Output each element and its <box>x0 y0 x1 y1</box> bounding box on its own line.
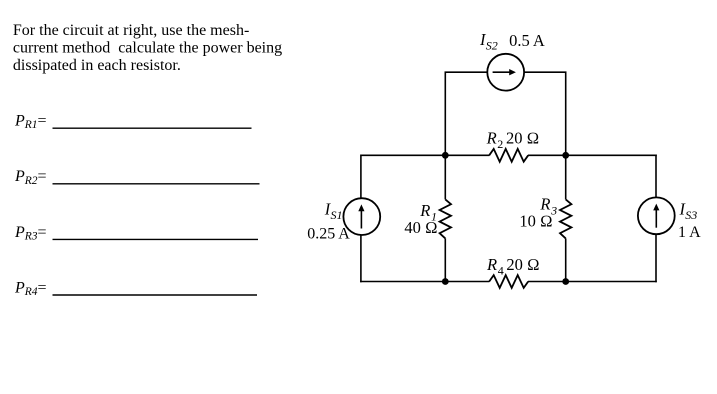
wire top branch left vertical <box>444 72 446 155</box>
wire bottom rail right <box>528 281 657 283</box>
label R1 <box>419 201 437 224</box>
svg-text:40 Ω: 40 Ω <box>404 218 437 237</box>
wire right outer lower <box>655 235 657 283</box>
label R3 <box>539 195 557 218</box>
wire top branch right vertical <box>565 72 567 155</box>
wire right outer upper <box>655 155 657 198</box>
answer label PR2 <box>14 168 47 187</box>
wire bottom rail left <box>360 281 489 283</box>
wire middle rail right <box>528 154 657 156</box>
svg-text:=: = <box>38 224 47 241</box>
current source IS3 <box>638 197 675 234</box>
svg-text:0.5 A: 0.5 A <box>509 31 545 50</box>
svg-text:PR1: PR1 <box>14 113 38 132</box>
answer label PR3 <box>14 224 47 243</box>
svg-text:PR2: PR2 <box>14 168 38 187</box>
problem statement text <box>13 22 282 74</box>
wire R1 branch lower <box>444 238 446 282</box>
answer blank line 3 <box>53 238 259 240</box>
label R2 20 ohm <box>486 128 540 151</box>
wire top branch horizontal right <box>524 71 566 73</box>
svg-text:current method calculate the: current method calculate the power being <box>13 39 282 56</box>
wire middle rail left <box>361 154 490 156</box>
svg-text:10 Ω: 10 Ω <box>519 212 552 231</box>
node C (bottom-left junction) <box>442 278 449 285</box>
svg-text:20 Ω: 20 Ω <box>506 255 539 274</box>
wire top branch horizontal left <box>445 71 488 73</box>
svg-text:2: 2 <box>497 137 503 151</box>
label IS1 <box>324 199 343 222</box>
answer blank line 2 <box>53 183 260 185</box>
answer label PR4 <box>14 279 47 298</box>
svg-text:PR3: PR3 <box>14 224 38 243</box>
svg-text:S3: S3 <box>685 208 697 222</box>
label R4 20 ohm <box>486 255 540 278</box>
svg-text:20 Ω: 20 Ω <box>506 128 539 147</box>
label IS3 <box>679 199 698 222</box>
answer blank line 1 <box>53 127 252 129</box>
resistor R4 <box>489 275 528 288</box>
svg-text:=: = <box>38 279 47 296</box>
svg-text:1 A: 1 A <box>678 224 701 241</box>
resistor R3 <box>560 199 571 238</box>
svg-text:=: = <box>38 168 47 185</box>
svg-text:0.25 A: 0.25 A <box>307 226 350 243</box>
svg-text:R: R <box>486 255 497 274</box>
answer blank line 4 <box>53 294 258 296</box>
node B (top-right junction) <box>562 152 569 159</box>
svg-text:For the circuit at right, use: For the circuit at right, use the mesh- <box>13 22 249 39</box>
svg-text:=: = <box>38 113 47 130</box>
wire R3 branch upper <box>565 155 567 199</box>
label IS2 0.5 A <box>479 30 545 53</box>
current source IS1 <box>343 198 380 235</box>
svg-text:dissipated in each resistor.: dissipated in each resistor. <box>13 57 181 74</box>
wire R1 branch upper <box>444 155 446 199</box>
svg-text:4: 4 <box>498 263 504 277</box>
current source IS2 <box>487 54 524 91</box>
resistor R2 <box>489 149 528 162</box>
answer label PR1 <box>14 113 47 132</box>
wire left outer lower <box>360 235 362 282</box>
wire left outer upper <box>360 155 362 199</box>
node A (top-left junction) <box>442 152 449 159</box>
svg-text:PR4: PR4 <box>14 279 38 298</box>
resistor R1 <box>440 199 451 238</box>
node D (bottom-right junction) <box>562 278 569 285</box>
svg-text:S1: S1 <box>331 208 343 222</box>
wire R3 branch lower <box>565 238 567 282</box>
svg-text:R: R <box>486 128 497 147</box>
svg-text:S2: S2 <box>486 39 498 53</box>
